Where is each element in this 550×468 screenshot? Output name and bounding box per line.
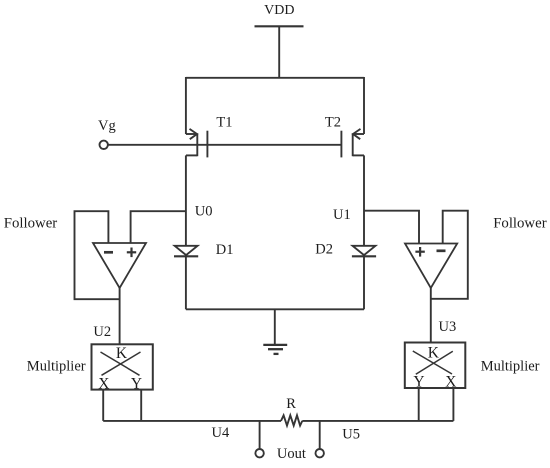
wire op-amp U3 output [430,288,432,343]
wire T1 drain [185,77,187,134]
svg-text:R: R [286,396,296,412]
svg-text:VDD: VDD [264,3,294,18]
svg-text:U0: U0 [195,204,213,220]
svg-text:U5: U5 [342,427,360,443]
wire U3 X pin [452,388,454,421]
op-amp U2 (left follower) [93,243,146,288]
svg-text:U2: U2 [93,324,111,340]
svg-text:Vg: Vg [98,118,116,134]
VDD supply bar [255,25,304,27]
op-amp U3 (right follower) [405,244,457,289]
wire T1 source to node U0 and D1 [185,155,187,246]
terminal U5 [316,449,324,457]
wire VDD stem [278,26,280,78]
svg-text:X: X [445,374,456,391]
diode D2 [352,246,376,256]
terminal Vg [100,141,108,149]
svg-text:K: K [428,345,440,362]
wire ground stem [274,309,276,345]
wire gate bus [109,144,342,146]
wire D2 to bottom rail [363,256,365,309]
svg-text:K: K [116,345,128,362]
wire T2 drain [363,77,365,134]
svg-text:Uout: Uout [277,446,306,462]
wire U2 X pin [102,390,104,421]
wire bottom bus left [103,420,281,422]
svg-text:U3: U3 [439,319,457,335]
svg-text:Follower: Follower [493,216,547,232]
wire op-amp U3 inverting input feedback [431,211,468,299]
wire U3 Y pin [418,388,420,421]
svg-text:D1: D1 [216,242,234,258]
transistor T1 [186,129,208,158]
svg-text:Multiplier: Multiplier [27,359,86,375]
multiplier U3 box [405,343,466,391]
svg-text:U4: U4 [212,425,230,441]
wire U4 terminal stem [259,421,261,449]
wire U1 to op-amp noninverting input [364,211,419,244]
wire U0 to op-amp noninverting input [131,211,186,243]
svg-text:T1: T1 [216,115,232,131]
diode D1 [174,246,198,256]
svg-text:T2: T2 [325,115,341,131]
wire U5 terminal stem [319,421,321,449]
wire T2 source to node U1 and D2 [363,155,365,246]
wire D1 to bottom rail [185,256,187,309]
wire U2 Y pin [140,390,142,421]
wire bottom rail [186,308,364,310]
ground [263,345,287,354]
wire drain rail [186,77,364,79]
wire op-amp U2 inverting input feedback [75,211,120,299]
multiplier U2 box [92,344,153,392]
svg-text:Follower: Follower [4,216,58,232]
resistor R [281,415,302,425]
svg-text:U1: U1 [333,207,351,223]
terminal U4 [255,449,263,457]
wire bottom bus right [302,420,453,422]
svg-text:D2: D2 [315,242,333,258]
wire op-amp U2 output [119,288,121,344]
svg-text:Multiplier: Multiplier [481,359,540,375]
transistor T2 [341,129,364,158]
